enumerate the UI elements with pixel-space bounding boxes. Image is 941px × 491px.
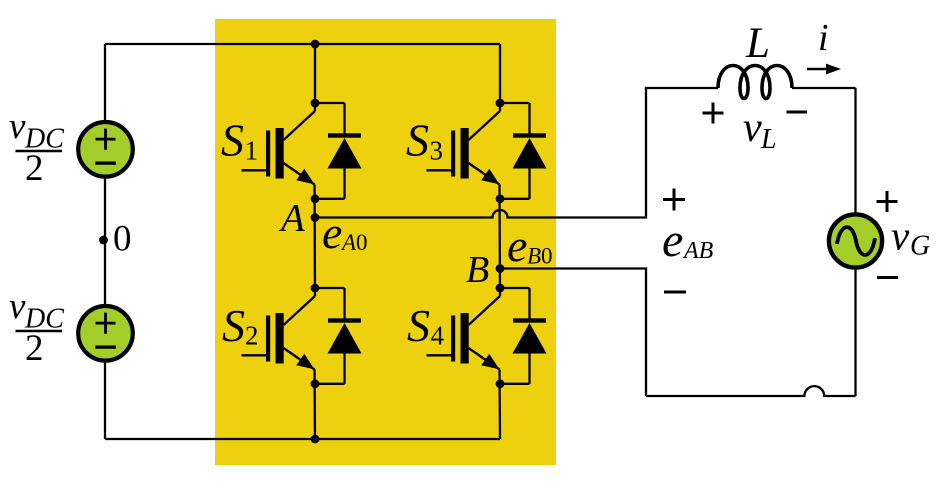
- junction dot S3 emitter node: [496, 194, 505, 203]
- diode D3 (antiparallel with S3): [500, 103, 547, 199]
- svg-text:e: e: [507, 220, 527, 271]
- svg-text:4: 4: [431, 321, 445, 351]
- wire: phase-B leg mid (node B region): [498, 185, 501, 297]
- wire: phase-B leg top: [499, 44, 501, 111]
- label S4: [407, 300, 445, 351]
- wire: node A to right rail (with hop over phase-B leg): [315, 88, 646, 218]
- transistor Q3 IGBT S3: [427, 111, 501, 185]
- label eA0: [322, 207, 368, 258]
- svg-text:0: 0: [113, 219, 132, 260]
- svg-text:B: B: [527, 244, 541, 269]
- svg-text:2: 2: [245, 321, 259, 351]
- label eAB minus: [664, 291, 686, 294]
- svg-text:0: 0: [356, 230, 368, 255]
- svg-text:L: L: [745, 20, 770, 67]
- svg-text:2: 2: [25, 148, 44, 189]
- label vDC/2 lower: [9, 286, 64, 335]
- wire: phase-A leg mid (node A region): [313, 185, 316, 297]
- svg-text:S: S: [407, 300, 430, 351]
- junction dot S3 collector node: [496, 99, 505, 108]
- label vG: [891, 213, 930, 262]
- label vL: [743, 105, 777, 155]
- diode D1 (antiparallel with S1): [315, 103, 362, 199]
- diode D4 (antiparallel with S4): [500, 288, 547, 384]
- svg-text:v: v: [891, 213, 910, 259]
- svg-text:AB: AB: [682, 238, 714, 264]
- diode D2 (antiparallel with S2): [315, 288, 362, 384]
- svg-text:1: 1: [245, 136, 259, 166]
- svg-text:v: v: [9, 286, 26, 327]
- wire: phase-B leg bottom: [498, 370, 501, 440]
- label vL plus: [703, 103, 724, 124]
- AC source vG: [829, 214, 882, 267]
- svg-text:i: i: [818, 17, 829, 59]
- label vDC/2 upper: [9, 106, 64, 155]
- wire: phase-A leg: [314, 44, 316, 111]
- junction dot top bus / leg A: [311, 40, 320, 49]
- svg-text:v: v: [9, 106, 26, 147]
- label eAB plus: [663, 189, 685, 211]
- transistor Q2 IGBT S2: [242, 296, 316, 370]
- svg-text:B: B: [466, 249, 489, 291]
- svg-text:e: e: [662, 214, 683, 267]
- wire: top DC bus: [105, 43, 500, 45]
- label vG plus: [877, 191, 898, 212]
- label vG minus: [877, 276, 898, 279]
- wire: inductor to vG corner: [792, 87, 856, 89]
- wire: right bottom (with bump): [646, 386, 856, 396]
- node B: [496, 264, 505, 273]
- label S1: [221, 115, 258, 166]
- svg-text:L: L: [760, 124, 777, 155]
- junction dot S2 collector node: [311, 284, 320, 293]
- junction dot S1 emitter node: [311, 194, 320, 203]
- wire: left rail lower segment: [104, 360, 106, 439]
- svg-text:G: G: [910, 231, 930, 262]
- svg-text:v: v: [743, 105, 762, 151]
- junction dot S2 emitter node: [311, 379, 320, 388]
- svg-text:S: S: [222, 300, 245, 351]
- wire: left rail between sources: [104, 177, 106, 307]
- svg-text:S: S: [406, 115, 429, 166]
- junction dot S1 collector node: [311, 99, 320, 108]
- inductor L: [718, 66, 792, 99]
- svg-text:0: 0: [541, 244, 553, 269]
- label eAB: [662, 214, 714, 267]
- DC source V1 (upper vDC/2): [78, 122, 133, 177]
- node 0 (DC midpoint): [99, 236, 108, 245]
- wire: bottom DC bus: [105, 438, 500, 440]
- label vL minus: [787, 111, 808, 114]
- wire: left rail upper segment: [104, 44, 106, 123]
- label S2: [222, 300, 259, 351]
- junction dot bottom bus / leg A: [311, 435, 320, 444]
- svg-text:A: A: [278, 197, 305, 240]
- junction dot S4 collector node: [496, 284, 505, 293]
- wire: right top (rail to inductor): [645, 87, 718, 89]
- converter block highlight: [215, 19, 556, 465]
- svg-text:2: 2: [25, 328, 44, 369]
- svg-text:e: e: [322, 207, 342, 258]
- svg-text:S: S: [221, 115, 244, 166]
- wire: vG branch upper: [854, 88, 856, 214]
- current arrow i: [807, 64, 841, 75]
- wire: vG branch lower: [854, 268, 856, 396]
- transistor Q4 IGBT S4: [427, 296, 501, 370]
- DC source V2 (lower vDC/2): [78, 306, 133, 361]
- wire: phase-A leg bottom: [313, 370, 316, 440]
- label S3: [406, 115, 443, 166]
- label eB0: [507, 220, 553, 271]
- svg-text:3: 3: [430, 136, 444, 166]
- transistor Q1 IGBT S1: [242, 111, 316, 185]
- junction dot S4 emitter node: [496, 379, 505, 388]
- node A: [311, 213, 320, 222]
- svg-text:A: A: [340, 230, 357, 255]
- wire: node B to right rail: [500, 269, 646, 397]
